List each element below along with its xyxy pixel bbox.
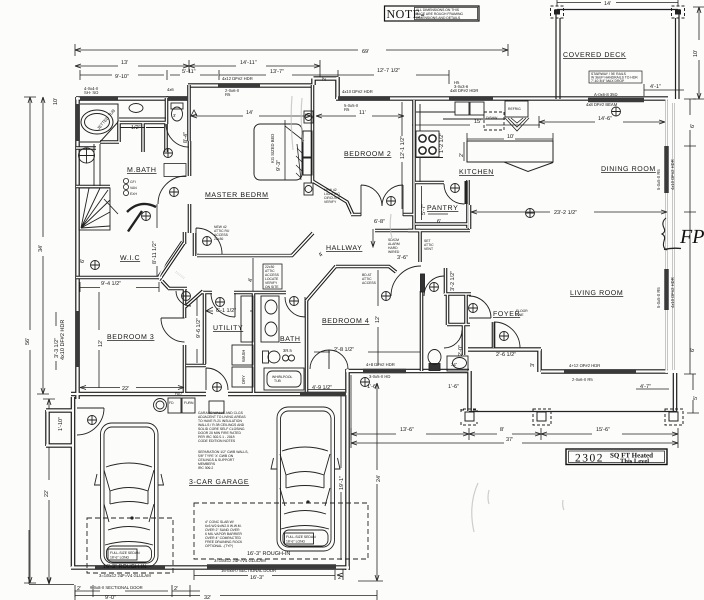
master bed [254,120,312,180]
wic pedestal sink [79,148,95,163]
svg-text:HALLWAY: HALLWAY [326,245,362,252]
door bath arc [285,297,305,317]
wall wic bottom angled [76,277,169,288]
svg-text:22x30: 22x30 [214,237,223,241]
dim line dining 14-6 [539,116,665,128]
svg-text:15'-6": 15'-6" [596,427,610,433]
svg-text:4x10 DF#2 HDR: 4x10 DF#2 HDR [60,320,66,360]
dim line bottom 37 [351,375,678,448]
wall master top [188,83,314,88]
window dining deck door [588,98,644,103]
door bedroom4 closets [310,350,348,369]
svg-text:KITCHEN: KITCHEN [459,169,494,176]
svg-text:FULL-SIZE SEDAN: FULL-SIZE SEDAN [286,535,316,539]
master wall symbol boxes [304,111,313,195]
svg-text:2'-0": 2'-0" [458,345,464,356]
dim line master 14ft [191,110,311,116]
svg-text:8': 8' [500,427,504,433]
wall living step [673,373,678,412]
svg-text:2'-6 1/2": 2'-6 1/2" [496,352,516,358]
dim line 3-3half left [55,312,57,370]
electrical symbols [87,107,620,425]
kitchen island [467,141,553,172]
wall mbath wic divider [76,121,166,148]
svg-text:A-0x6-8 35D: A-0x6-8 35D [594,92,618,97]
svg-text:4x8 DF#2 HDR: 4x8 DF#2 HDR [450,88,478,93]
svg-text:2-0x6-0 R5: 2-0x6-0 R5 [572,377,593,382]
svg-text:SH- SO: SH- SO [84,90,99,95]
bath toilet [262,351,280,363]
wall utility bath divider [252,292,256,393]
wall bed2 angled [313,181,353,214]
svg-text:3R.5: 3R.5 [283,348,293,353]
wall garage right [345,369,350,570]
svg-text:VERIFY: VERIFY [324,200,337,204]
svg-text:4+8 DF#2 HDR: 4+8 DF#2 HDR [366,362,395,367]
svg-text:8'-11 1/2": 8'-11 1/2" [152,241,158,264]
svg-text:W.I.C: W.I.C [120,255,140,262]
svg-text:2': 2' [174,586,178,592]
svg-text:LIVING ROOM: LIVING ROOM [570,290,623,297]
doors / arcs [77,124,520,435]
svg-text:13'-7": 13'-7" [270,69,284,75]
svg-text:PANTRY: PANTRY [427,205,458,212]
misc tiny note blocks [214,225,230,241]
dim line 12 bedroom4 [377,270,379,366]
dim line right 5ft [687,374,699,413]
svg-text:BATH: BATH [280,336,301,343]
svg-text:8'-4": 8'-4" [183,132,189,143]
interior wall core overlay [76,85,494,396]
svg-text:3': 3' [173,113,176,118]
mbath vanity [119,103,166,118]
svg-text:EXH: EXH [130,192,138,196]
porch post E [665,409,683,425]
svg-text:FP: FP [679,226,704,248]
garage equipment [153,398,224,413]
hall keynote blobs [388,238,434,254]
svg-text:14'-6": 14'-6" [598,116,612,122]
wall master bottom [197,231,313,256]
door toilet closet arc [166,124,189,147]
wall wic top [76,185,110,189]
svg-text:6'-8": 6'-8" [374,219,385,225]
svg-text:22': 22' [122,386,129,392]
svg-text:14': 14' [246,110,253,116]
svg-text:1'-2 1/2": 1'-2 1/2" [439,133,445,153]
window bath front [363,369,406,374]
svg-text:3=1/8x12 24F=V4 GLULAM: 3=1/8x12 24F=V4 GLULAM [99,573,151,578]
wall mbath inner [141,122,145,152]
svg-text:DINING ROOM: DINING ROOM [601,166,656,173]
svg-text:This Level: This Level [620,458,649,465]
powder sink [447,356,468,371]
svg-text:19'-1": 19'-1" [339,476,345,490]
svg-text:12'-1 1/2": 12'-1 1/2" [400,136,406,159]
svg-text:TUB: TUB [274,379,282,383]
svg-text:4x10 DF#2 HDR: 4x10 DF#2 HDR [342,89,373,94]
kitchen dishwasher [484,112,504,130]
dim line 2-8half bedroom4 [306,352,420,390]
wall bedroom3 right [183,288,187,393]
svg-text:3': 3' [530,363,536,367]
svg-text:ACCESS: ACCESS [362,281,377,285]
window living right [664,269,669,310]
svg-text:WIRED: WIRED [388,250,400,254]
svg-text:6': 6' [690,348,696,352]
svg-text:16-0x8-0 SECTIONAL DOOR: 16-0x8-0 SECTIONAL DOOR [221,568,276,573]
svg-text:9'-4 1/2": 9'-4 1/2" [101,281,121,287]
svg-text:2': 2' [322,77,328,81]
svg-text:4': 4' [248,278,254,282]
dim line 8-11half wic [80,204,159,292]
dim line 9-6half corridor [196,296,198,363]
door bedroom4 arc [391,266,421,296]
wall powder closet bottom [447,294,470,325]
svg-text:3-0x5-0 HD: 3-0x5-0 HD [369,374,390,379]
garage door headers [95,566,336,567]
window garage top wall [300,392,346,397]
wall corridor east [186,293,206,366]
svg-text:7'-10 3/4" MAX DROP: 7'-10 3/4" MAX DROP [591,79,625,83]
window dining right [664,146,669,193]
svg-text:FOYER: FOYER [493,311,520,318]
wall bedroom3 top [168,287,187,291]
svg-text:9'-0": 9'-0" [105,595,116,600]
svg-text:4x12 DF#2 HDR: 4x12 DF#2 HDR [222,76,253,81]
wall right [666,98,673,373]
kitchen stove [416,131,443,158]
window living bottom [564,369,636,374]
wall foyer front [468,349,541,372]
wall corridor angled [185,291,203,307]
dim line left 34ft [37,97,49,394]
wall bedroom4 top [336,266,396,272]
garage car right [271,407,340,551]
svg-text:24': 24' [376,475,382,482]
svg-text:1'-10": 1'-10" [58,417,64,431]
svg-text:4x10 DF#2 HDR: 4x10 DF#2 HDR [670,277,675,308]
svg-text:2': 2' [459,153,465,157]
wall garage bump [46,410,74,446]
bath whirlpool tub [264,368,304,390]
svg-text:FD: FD [169,401,174,405]
svg-text:IRC 309.2: IRC 309.2 [198,466,213,470]
island dim 4ft [463,142,465,161]
dim line garage bottom [29,530,200,597]
wall kitchen bed2 divider [412,100,416,230]
svg-text:16'-3": 16'-3" [250,575,264,581]
bath towel circles [282,355,294,361]
svg-text:2302: 2302 [575,453,604,465]
bath double vanity [261,296,279,342]
wall master bump [314,77,338,99]
wall living bottom [541,369,668,374]
porch post M [533,409,551,425]
door master arc [196,228,222,254]
svg-text:18'-6" LONG: 18'-6" LONG [286,539,306,543]
kitchen sink counter [416,102,505,182]
svg-text:BEDROOM 4: BEDROOM 4 [322,318,369,325]
svg-text:1/2": 1/2" [131,125,141,131]
deck post NW [551,6,564,18]
svg-text:6': 6' [690,124,696,128]
svg-text:2': 2' [77,586,81,592]
dim line kitchen 15ft [412,124,540,126]
window bedroom3 left [75,311,80,367]
porch floor line [469,411,676,413]
window master top [218,83,260,88]
wall wic stub [176,272,184,278]
door utility-garage arc [206,368,228,390]
powder toilet [428,350,441,371]
svg-text:16'-3" ROUGH-IN: 16'-3" ROUGH-IN [103,564,146,570]
svg-text:4x10 DF#2 HDR: 4x10 DF#2 HDR [670,159,675,190]
svg-text:12': 12' [98,340,104,347]
door bedroom4 hall arc [424,276,444,296]
svg-text:ON SITE: ON SITE [265,285,279,289]
wall foyer top [444,268,471,325]
door mbath arc [158,176,186,204]
dim line 13ft / 14-11 [75,60,320,77]
svg-text:32': 32' [204,595,211,600]
garage car left [94,423,163,567]
wall foyer entry [492,322,496,348]
wall left upper [75,97,80,399]
wall bed2 bottom [351,213,414,217]
wall garage bottom [71,565,349,570]
wall kitchen top [336,96,668,101]
wall utility top [202,291,253,295]
svg-text:1'-6": 1'-6" [448,384,459,390]
mbath keynote circles [123,178,128,195]
wall toilet closet [167,85,190,141]
NOTE box [385,6,480,21]
wall hallway closet [408,230,420,262]
kitchen corner pantry chevron [505,118,529,131]
svg-text:3-CAR GARAGE: 3-CAR GARAGE [189,479,249,486]
svg-text:16'-3" ROUGH-IN: 16'-3" ROUGH-IN [247,551,290,557]
svg-text:KG SIZED BED: KG SIZED BED [270,134,275,163]
dim line deck 4-1 [644,84,684,96]
window bed2 top [338,96,390,101]
wall bath front [346,371,470,411]
window kitchen top [449,96,493,101]
svg-text:5-0x5-0 R5: 5-0x5-0 R5 [656,169,661,190]
interior walls [76,85,494,396]
wall garage left [71,397,76,567]
svg-text:R5: R5 [225,92,231,97]
svg-text:FULL-SIZE SEDAN: FULL-SIZE SEDAN [110,551,140,555]
dim line 12-1half bedroom2 [401,102,403,209]
door bedroom3 arc [161,318,185,342]
kitchen fridge [505,101,528,117]
dim line left 22ft [43,399,55,583]
pantry shelf [422,186,449,220]
dim line bedroom3 22ft [80,387,343,580]
svg-text:5-0x5-0 R5: 5-0x5-0 R5 [656,287,661,308]
svg-text:9'-3": 9'-3" [276,160,282,171]
svg-text:4x8 DF#2 BEAM: 4x8 DF#2 BEAM [586,102,618,107]
svg-text:12': 12' [375,316,381,323]
svg-text:4+12 OF#2 HDR: 4+12 OF#2 HDR [569,363,600,368]
svg-text:18'-6" LONG: 18'-6" LONG [110,555,130,559]
svg-text:4'-9 1/2": 4'-9 1/2" [312,385,332,391]
window mbath top [80,96,188,101]
svg-text:12'-7 1/2": 12'-7 1/2" [377,68,400,74]
svg-text:22': 22' [44,490,50,497]
door wic arc [127,204,156,232]
svg-text:6': 6' [80,259,86,263]
svg-text:DISHW: DISHW [486,116,498,120]
dim line 9-10 / 5-11 / 13-7 / 12-7half [80,70,449,84]
svg-text:9-0x8-0 SECTIONAL DOOR: 9-0x8-0 SECTIONAL DOOR [90,585,143,590]
svg-text:13': 13' [121,60,128,66]
wall bedroom4 angled [306,266,336,301]
covered deck [556,0,679,99]
svg-text:23'-2 1/2": 23'-2 1/2" [554,210,577,216]
svg-text:34': 34' [38,245,44,252]
wall bath right [305,300,309,396]
svg-text:4'-1": 4'-1" [650,84,661,90]
svg-text:3=1/8x12 24F=V4 GLULAM: 3=1/8x12 24F=V4 GLULAM [214,558,266,563]
window wic shear wall [75,104,80,141]
exterior walls [46,77,675,570]
svg-text:FAU: FAU [175,392,182,396]
svg-text:14'-11": 14'-11" [240,60,257,66]
dim line island 10ft [467,133,553,145]
svg-text:UTILITY: UTILITY [213,325,243,332]
windows (headers) [77,85,666,567]
wall pantry [375,180,470,231]
door pantry arc [444,184,465,204]
svg-text:13'-6": 13'-6" [400,427,414,433]
wall garage top [71,392,347,397]
utility washer dryer [232,296,253,387]
svg-text:9'-6 1/2": 9'-6 1/2" [196,318,202,338]
dim leader hallway [371,229,375,247]
wic shower fan [79,188,118,230]
svg-text:69': 69' [362,49,369,55]
door garage side arc [77,408,104,435]
wall pantry right stub [468,205,472,229]
svg-text:BEDROOM 2: BEDROOM 2 [344,151,391,158]
dim line left 56ft [24,97,36,583]
svg-text:10': 10' [507,134,514,140]
svg-text:BEDROOM 3: BEDROOM 3 [107,334,154,341]
svg-text:5': 5' [693,396,699,400]
svg-text:DIMENSIONS AND DETAILS: DIMENSIONS AND DETAILS [416,16,461,20]
dim line right 9ft/6ft chain [684,99,696,374]
wall wic master diagonal inner [157,241,182,278]
svg-text:R5: R5 [344,107,350,112]
wall master right [311,85,315,183]
garage rough-in dashed right [194,503,368,559]
2302 sqft box [566,449,667,465]
faint pencil smudges [291,96,564,532]
svg-text:GFI: GFI [130,180,136,184]
garage rough-in dashed left [87,518,173,573]
svg-text:WASH: WASH [241,350,246,362]
svg-text:5'-11": 5'-11" [182,69,196,75]
dim line 69ft top [75,44,508,56]
svg-text:M.BATH: M.BATH [127,167,157,174]
door corridor arc [176,291,191,306]
wall master left [190,141,195,256]
svg-text:24": 24" [451,362,458,367]
room labels [107,52,656,486]
deck stair note box [589,71,642,83]
door bedroom2 double arc [361,185,403,216]
door foyer closet arc [469,296,491,318]
mbath inner wall pair [94,127,164,186]
dim line bottom 13-6 / 8 / 15-6 [351,428,678,448]
dim line 12 bedroom3 [98,292,100,388]
svg-text:11': 11' [359,110,366,116]
svg-text:VAN: VAN [130,186,137,190]
tub oval [81,110,113,134]
svg-text:CODE EDITION NOTES: CODE EDITION NOTES [198,439,236,443]
svg-text:3'-2 1/2": 3'-2 1/2" [450,271,456,291]
svg-text:DRY: DRY [241,375,246,384]
svg-text:10': 10' [53,98,59,105]
wall core overlay [46,77,675,570]
wall bedroom4 right [420,291,424,371]
dim line dining 23-2half [471,211,667,213]
door utility arc [211,293,235,317]
svg-text:9'-10": 9'-10" [115,74,129,80]
svg-text:4x6: 4x6 [167,87,174,92]
tub platform [80,104,118,142]
svg-text:15': 15' [474,119,481,125]
wall bath top [253,291,286,295]
svg-text:OPTIONAL -(TYP): OPTIONAL -(TYP) [205,544,233,548]
toilet closet toilet [171,103,183,121]
svg-text:REFRIG: REFRIG [508,107,521,111]
svg-text:56': 56' [25,338,31,345]
svg-text:3'-6": 3'-6" [397,255,408,261]
garage note block 1 [198,411,246,443]
svg-text:FURN: FURN [184,401,194,405]
door front entry arc [494,322,520,348]
wall mbath right lower [164,123,168,152]
svg-text:37': 37' [506,437,513,443]
dim line bed2 11ft [316,115,404,117]
svg-text:2': 2' [338,575,342,581]
wall mbath top [76,96,168,101]
svg-text:6': 6' [437,219,441,225]
wall toilet closet top [166,96,190,101]
svg-text:14': 14' [604,1,611,7]
garage note block 2 separation [198,450,249,470]
garage note block 3 slab [205,520,243,548]
mbath cabinet [164,163,186,176]
dim line garage 24ft [358,383,383,581]
dim line 4ft hall [253,258,669,389]
dim line deck 10ft [693,7,704,99]
svg-text:VENT: VENT [424,247,433,251]
wall wic master diagonal [159,232,185,280]
svg-text:COVERED DECK: COVERED DECK [563,52,626,59]
porch post W [461,409,477,425]
door powder arc [444,330,462,348]
svg-text:10': 10' [693,50,699,57]
dim line 6-1half utility [206,307,253,314]
wall powder privacy [462,325,466,355]
dim line 19-1 garage [340,396,342,560]
svg-text:MASTER BEDRM: MASTER BEDRM [205,192,269,199]
deck post NE [672,6,685,18]
